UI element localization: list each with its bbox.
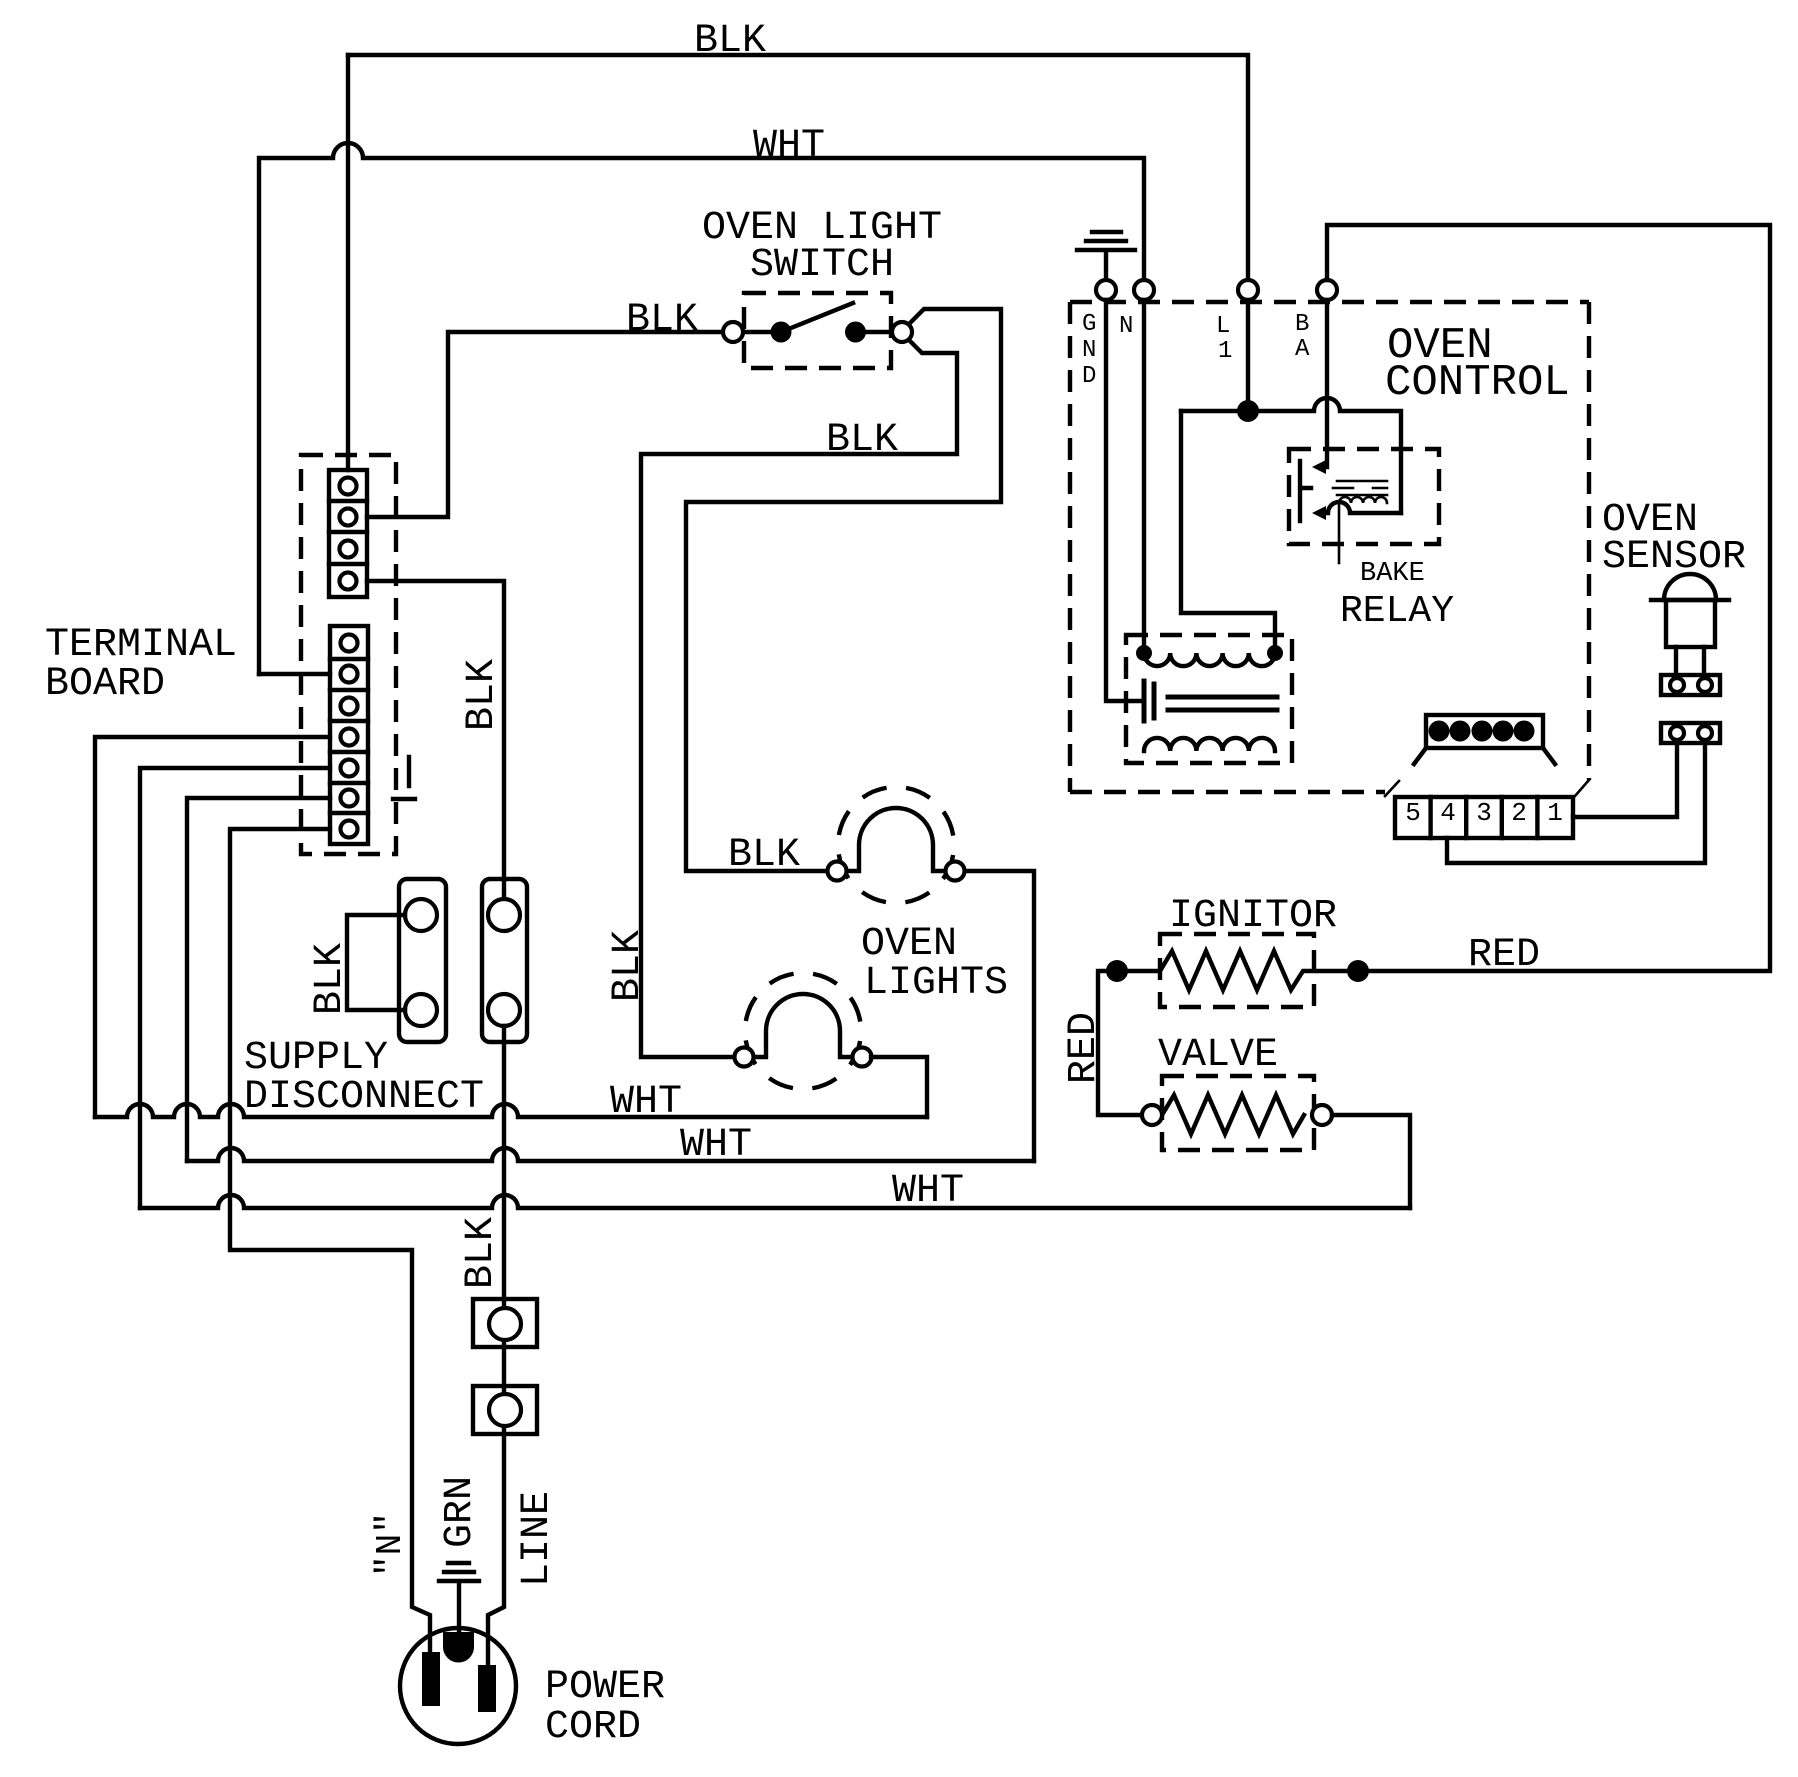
oven light 1 filament [847, 808, 946, 871]
svg-text:WHT: WHT [892, 1169, 964, 1214]
transformer primary winding [1144, 653, 1275, 666]
wire WHT1 with hops [95, 1104, 927, 1117]
svg-text:1: 1 [1547, 798, 1563, 828]
wire BLK vertical to terminal board [346, 55, 350, 470]
oven control terminal strip [1395, 797, 1573, 838]
oven control dashed box [1070, 302, 1589, 792]
ground symbol power cord [439, 1563, 479, 1634]
valve terminals [1142, 1105, 1162, 1125]
oven sensor legs [1676, 647, 1704, 675]
svg-text:2: 2 [1511, 798, 1527, 828]
svg-text:GRN: GRN [438, 1476, 483, 1548]
svg-text:3: 3 [1476, 798, 1492, 828]
svg-text:BLK: BLK [606, 930, 651, 1002]
wire valve right to WHT3 [1332, 1115, 1410, 1208]
terminal GND [1096, 280, 1116, 300]
wire L1 junction to relay right side (hop over BA) [1181, 398, 1401, 513]
wire L1 to junction [1246, 300, 1250, 411]
plug prong line [478, 1665, 496, 1712]
bake relay dashed box [1289, 449, 1439, 544]
svg-text:CONTROL: CONTROL [1385, 358, 1570, 408]
ignitor dashed box [1160, 934, 1314, 1007]
svg-text:A: A [1295, 336, 1310, 363]
svg-text:D: D [1082, 363, 1096, 390]
terminal board dashed box [301, 455, 396, 854]
wire BA to relay contact arrow [1324, 300, 1327, 467]
oven light switch contacts and blade [743, 330, 892, 334]
svg-text:WHT: WHT [680, 1123, 752, 1168]
svg-text:G: G [1082, 311, 1096, 338]
wire sensor left pin to terminal 1 [1573, 743, 1677, 817]
junction dot L1 [1237, 400, 1259, 422]
oven light 1 dashed circle [829, 778, 963, 912]
wire relay heater return with under-hop and arrow [1324, 502, 1401, 513]
oven control box corner ticks [1385, 780, 1589, 796]
svg-text:IGNITOR: IGNITOR [1169, 894, 1337, 939]
svg-text:BLK: BLK [459, 1217, 504, 1289]
oven light 2 terminals [735, 1048, 754, 1067]
svg-text:5: 5 [1405, 798, 1421, 828]
terminal BA [1317, 280, 1337, 300]
power cord connector square 1 [473, 1299, 537, 1347]
wire junction to transformer primary right [1181, 411, 1275, 653]
svg-text:BLK: BLK [626, 298, 698, 343]
plug prong N [422, 1652, 440, 1706]
svg-text:BOARD: BOARD [45, 662, 165, 707]
svg-text:BLK: BLK [694, 19, 766, 64]
svg-text:4: 4 [1440, 798, 1456, 828]
terminal board upper block [329, 470, 367, 597]
relay heater plates [1333, 481, 1387, 495]
plug prong ground [443, 1632, 474, 1663]
oven control connector block [1426, 715, 1543, 748]
svg-text:SENSOR: SENSOR [1602, 535, 1746, 580]
power cord connector square 2 [473, 1386, 537, 1434]
wire WHT2 with hops [187, 1148, 1034, 1161]
wire N to transformer primary [1142, 300, 1146, 653]
junction dot ignitor right [1347, 960, 1369, 982]
wire terminal 7 to power cord N [230, 829, 430, 1652]
relay coil [1339, 497, 1387, 503]
wire terminal 4 to WHT1 [95, 737, 330, 1117]
svg-text:N: N [1082, 337, 1096, 364]
wire terminal board to WHT vertical [259, 672, 330, 676]
wire WHT3 with hops [140, 1195, 1410, 1208]
svg-text:POWER: POWER [545, 1665, 665, 1710]
valve element [1162, 1095, 1304, 1134]
svg-text:BLK: BLK [460, 659, 505, 731]
wire switch upper branch to oven light 1 [686, 309, 1001, 871]
connector block leader ticks [1414, 748, 1555, 764]
wire terminal 5 to WHT3 [140, 768, 330, 1208]
terminal L1 [1238, 280, 1258, 300]
svg-text:1: 1 [1218, 338, 1232, 365]
wire oven light 1 to WHT2 riser [965, 871, 1034, 1161]
supply disconnect left jumper bracket [347, 915, 405, 1010]
wire ignitor left to valve left [1098, 971, 1142, 1115]
svg-text:RED: RED [1062, 1012, 1107, 1084]
svg-text:B: B [1295, 311, 1309, 338]
ground symbol oven control [1077, 232, 1135, 280]
svg-text:N: N [1119, 313, 1133, 340]
svg-text:L: L [1216, 313, 1230, 340]
svg-text:"N": "N" [370, 1512, 411, 1577]
oven sensor plug half [1661, 675, 1720, 695]
ignitor element [1128, 951, 1347, 990]
transformer secondary winding [1144, 738, 1275, 751]
wire BLK supply disconnect to power cord line [488, 1026, 504, 1665]
terminal board lower block [330, 626, 368, 844]
oven sensor socket half [1661, 723, 1720, 743]
supply disconnect right block [482, 879, 527, 1042]
svg-text:DISCONNECT: DISCONNECT [244, 1075, 484, 1120]
svg-text:BLK: BLK [308, 943, 353, 1015]
svg-text:CORD: CORD [545, 1705, 641, 1750]
wire GND to transformer core [1106, 300, 1141, 701]
power cord plug [400, 1628, 516, 1744]
wire BLK terminal board to supply disconnect [367, 581, 504, 915]
svg-text:LINE: LINE [515, 1491, 560, 1587]
oven light 1 terminals [828, 862, 847, 881]
svg-text:RED: RED [1468, 933, 1540, 978]
supply disconnect left block [399, 879, 446, 1042]
junction dot ignitor left [1106, 960, 1128, 982]
svg-text:BLK: BLK [728, 833, 800, 878]
wire terminal 6 to WHT2 [187, 798, 330, 1161]
svg-text:BLK: BLK [826, 418, 898, 463]
svg-text:VALVE: VALVE [1158, 1033, 1278, 1078]
wire BLK terminal board to oven light switch [367, 332, 723, 517]
terminal N [1134, 280, 1154, 300]
oven light switch dashed box [744, 293, 891, 368]
wire oven light 2 to WHT1 riser [871, 1057, 927, 1117]
wire switch lower branch to oven light 2 [641, 340, 957, 1057]
wire WHT top (N feed) with hop [259, 143, 1144, 674]
transformer core [1144, 681, 1154, 721]
wire BA loop around right side to ignitor (RED) [1327, 225, 1770, 971]
svg-text:BAKE: BAKE [1360, 559, 1425, 589]
transformer dashed box [1126, 635, 1292, 763]
valve dashed box [1162, 1076, 1314, 1150]
svg-text:WHT: WHT [610, 1080, 682, 1125]
svg-text:LIGHTS: LIGHTS [864, 961, 1008, 1006]
relay coil stem [1338, 503, 1341, 563]
svg-text:WHT: WHT [753, 124, 825, 169]
wire BLK top (L1 feed) [348, 55, 1248, 280]
oven sensor bulb [1664, 574, 1716, 600]
terminal board spare marks [393, 757, 415, 799]
svg-text:SWITCH: SWITCH [750, 243, 894, 288]
svg-text:RELAY: RELAY [1340, 590, 1454, 633]
wire sensor right pin to terminal 4 [1447, 743, 1705, 863]
relay contact bar [1300, 461, 1311, 521]
oven light 2 filament [754, 994, 853, 1057]
oven light 2 dashed circle [736, 964, 870, 1098]
